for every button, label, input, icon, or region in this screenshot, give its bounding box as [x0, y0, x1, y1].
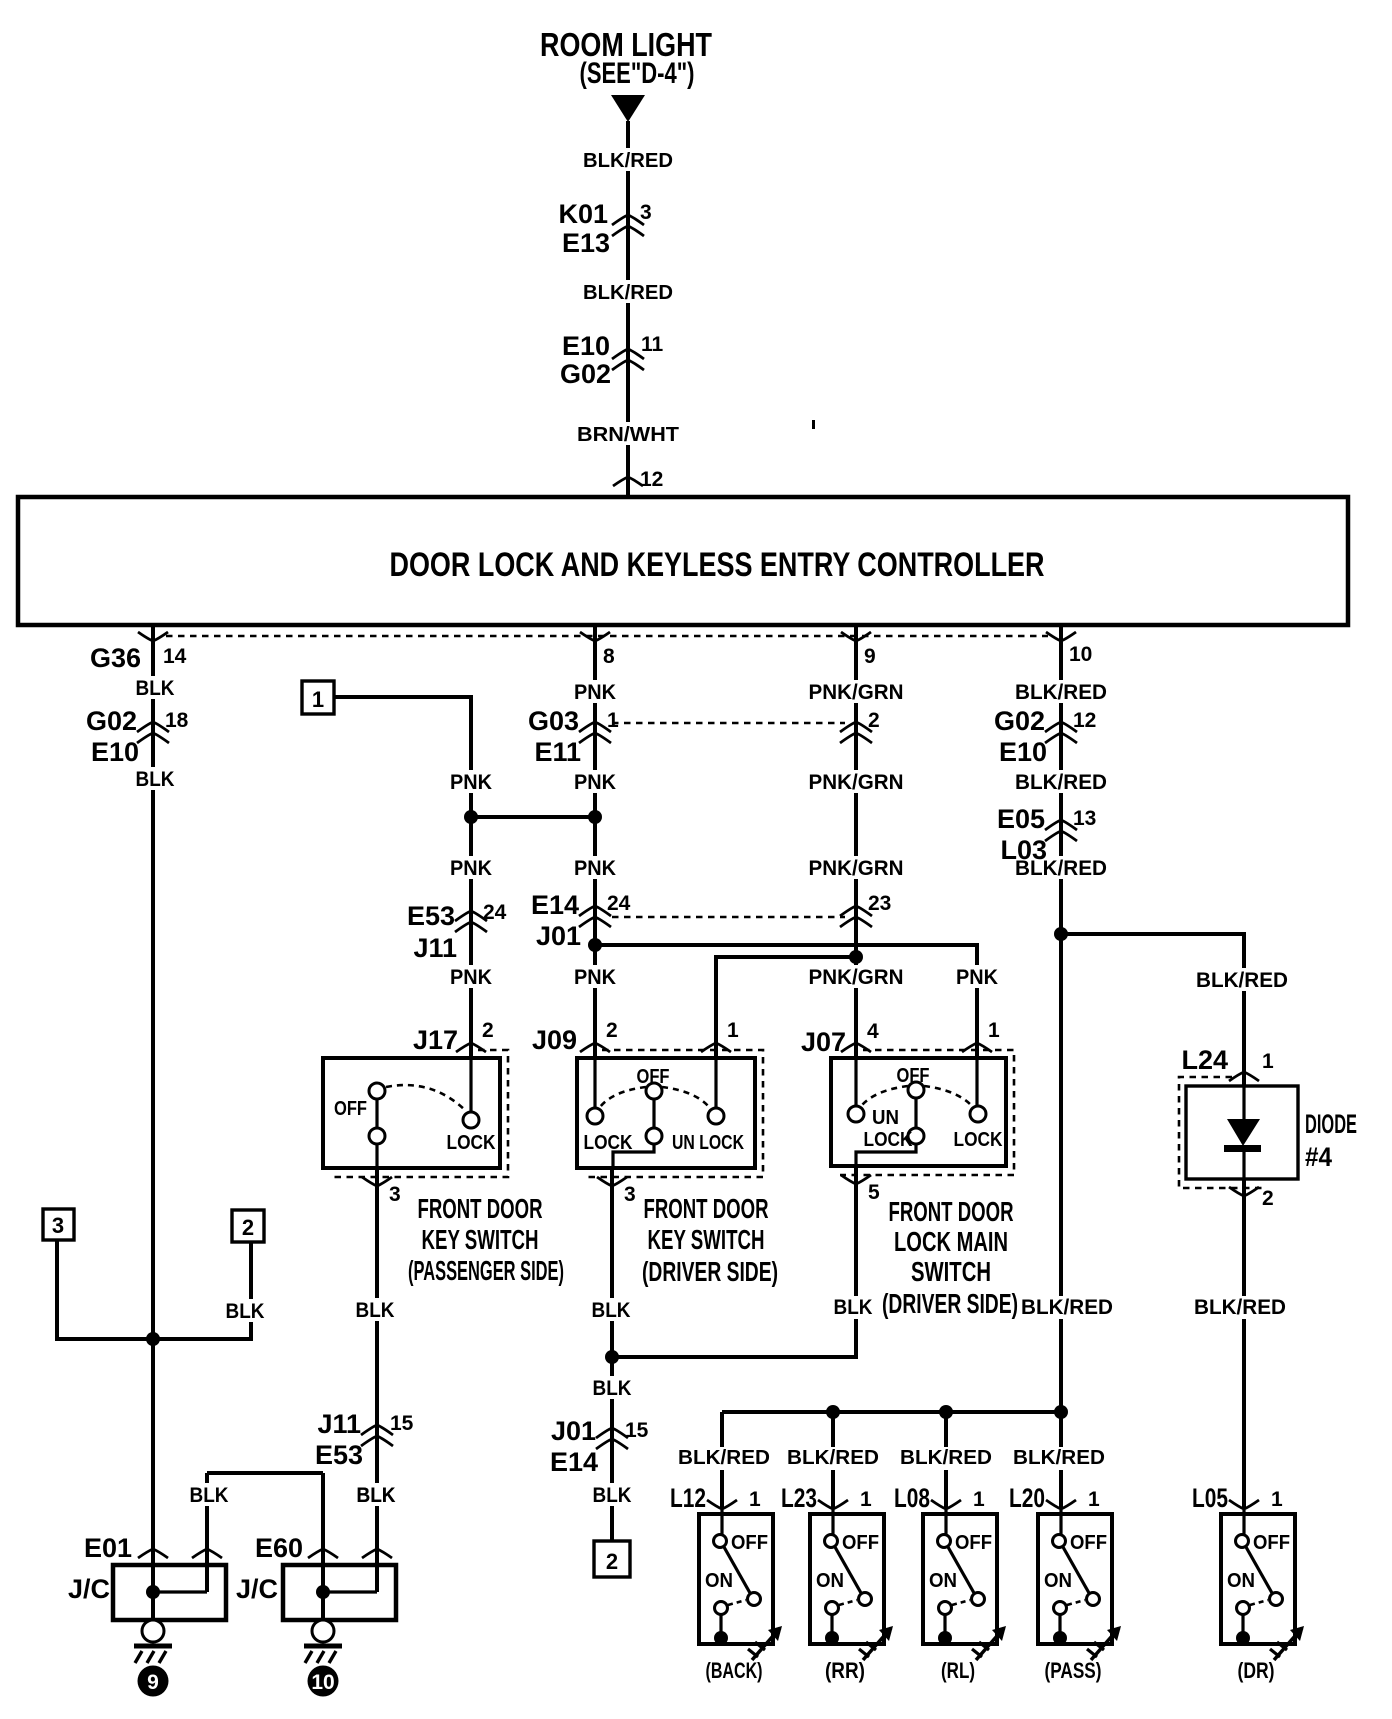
- svg-text:(DRIVER SIDE): (DRIVER SIDE): [642, 1256, 778, 1287]
- svg-text:BLK/RED: BLK/RED: [1015, 771, 1107, 794]
- svg-text:PNK/GRN: PNK/GRN: [809, 681, 904, 704]
- svg-text:L08: L08: [894, 1483, 930, 1513]
- svg-text:PNK: PNK: [956, 966, 998, 989]
- door switch feed bus (BLK/RED): [722, 1405, 1068, 1509]
- svg-text:(DRIVER SIDE): (DRIVER SIDE): [882, 1288, 1018, 1319]
- connector K01/E13 pin 3: [558, 199, 651, 258]
- controller pin 8: [580, 632, 615, 668]
- svg-text:12: 12: [1073, 709, 1096, 732]
- svg-text:E10: E10: [91, 737, 139, 767]
- controller bottom connector dashed line: [166, 635, 1048, 638]
- svg-text:BLK: BLK: [136, 768, 175, 791]
- J09 wiper exit wire: [613, 1144, 654, 1168]
- door switch L23 (RR) pin 1: [781, 1483, 893, 1683]
- svg-text:BLK: BLK: [190, 1484, 229, 1507]
- svg-text:BLK/RED: BLK/RED: [583, 150, 673, 172]
- DOOR LOCK AND KEYLESS ENTRY CONTROLLER box U1: [18, 497, 1348, 625]
- junction link PNK columns: [464, 810, 602, 824]
- junction J09/J07 BLK: [605, 1350, 619, 1364]
- svg-text:PNK: PNK: [450, 857, 492, 880]
- J07 pin wires inner: [856, 1058, 977, 1106]
- svg-text:BLK: BLK: [357, 1484, 396, 1507]
- J17 caption: [408, 1193, 564, 1286]
- J17 pin 2: [413, 1019, 494, 1055]
- svg-text:E05: E05: [997, 804, 1045, 834]
- svg-text:OFF: OFF: [334, 1098, 367, 1120]
- dashed link E14/J01 to pin23 connector: [612, 916, 845, 919]
- svg-text:10: 10: [1069, 643, 1092, 666]
- svg-text:15: 15: [625, 1419, 649, 1442]
- svg-text:BLK: BLK: [592, 1299, 631, 1322]
- junction wire to J09 pin1: [716, 950, 863, 1058]
- svg-text:1: 1: [312, 687, 324, 712]
- J17 pin 3 exit: [362, 1144, 401, 1206]
- svg-text:BLK: BLK: [226, 1300, 265, 1323]
- svg-text:FRONT DOOR: FRONT DOOR: [644, 1193, 769, 1224]
- L24 pin 1: [1181, 1045, 1274, 1081]
- J09 contacts: [587, 1083, 724, 1144]
- svg-text:1: 1: [1262, 1050, 1274, 1073]
- svg-text:24: 24: [607, 892, 631, 915]
- svg-text:BLK: BLK: [593, 1377, 632, 1400]
- svg-text:BLK/RED: BLK/RED: [1015, 857, 1107, 880]
- svg-text:E53: E53: [315, 1440, 363, 1470]
- svg-text:(BACK): (BACK): [706, 1658, 763, 1683]
- door switch L12 (BACK) pin 1: [670, 1483, 782, 1683]
- svg-text:PNK: PNK: [450, 771, 492, 794]
- svg-text:FRONT DOOR: FRONT DOOR: [418, 1193, 543, 1224]
- svg-text:G02: G02: [560, 359, 611, 389]
- svg-text:14: 14: [163, 645, 187, 668]
- svg-text:(PASS): (PASS): [1045, 1658, 1102, 1683]
- svg-text:E01: E01: [84, 1533, 132, 1563]
- svg-text:KEY SWITCH: KEY SWITCH: [422, 1224, 539, 1255]
- junction connector E01 J/C with ground 9: [68, 1533, 226, 1697]
- terminal box 2: [232, 1210, 264, 1242]
- svg-text:(PASSENGER SIDE): (PASSENGER SIDE): [408, 1255, 564, 1286]
- svg-text:BLK/RED: BLK/RED: [1013, 1447, 1105, 1469]
- svg-text:BLK: BLK: [834, 1296, 873, 1319]
- svg-text:4: 4: [867, 1020, 879, 1043]
- DIODE #4 label: [1305, 1109, 1357, 1172]
- J17 pin2 inner wire: [469, 1058, 472, 1112]
- svg-text:PNK: PNK: [450, 966, 492, 989]
- connector G02/E10 pin 18: [86, 706, 189, 767]
- svg-text:J07: J07: [801, 1027, 846, 1057]
- svg-text:2: 2: [1262, 1187, 1274, 1210]
- J07 caption: [882, 1196, 1018, 1319]
- svg-text:PNK: PNK: [574, 857, 616, 880]
- J07 dashed shadow: [840, 1050, 1014, 1175]
- svg-text:PNK: PNK: [574, 681, 616, 704]
- svg-text:J01: J01: [551, 1416, 596, 1446]
- svg-text:L20: L20: [1009, 1483, 1045, 1513]
- svg-text:(DR): (DR): [1238, 1658, 1275, 1683]
- junction + wire to diode L24: [1054, 927, 1244, 1086]
- svg-text:13: 13: [1073, 807, 1096, 830]
- J07 pin 1: [962, 1019, 1000, 1052]
- svg-text:BLK/RED: BLK/RED: [787, 1447, 879, 1469]
- svg-text:J11: J11: [317, 1409, 361, 1439]
- svg-text:1: 1: [1271, 1488, 1283, 1511]
- svg-text:(RR): (RR): [825, 1658, 865, 1683]
- J09 dashed shadow: [586, 1050, 763, 1177]
- svg-text:E53: E53: [407, 901, 455, 931]
- svg-text:2: 2: [242, 1215, 254, 1240]
- terminal box 3: [43, 1209, 74, 1240]
- connector pin 23: [840, 892, 891, 927]
- svg-text:3: 3: [52, 1213, 64, 1238]
- svg-text:BLK: BLK: [593, 1484, 632, 1507]
- svg-text:L05: L05: [1192, 1483, 1228, 1513]
- svg-text:12: 12: [640, 468, 663, 491]
- svg-text:10: 10: [311, 1671, 334, 1694]
- connector E14/J01 pin 24: [531, 890, 631, 951]
- svg-text:1: 1: [727, 1019, 739, 1042]
- svg-text:#4: #4: [1305, 1142, 1332, 1172]
- J17 dashed shadow: [331, 1050, 508, 1177]
- svg-text:(SEE"D-4"): (SEE"D-4"): [580, 57, 695, 90]
- controller pin 10: [1046, 632, 1092, 666]
- svg-text:2: 2: [606, 1019, 618, 1042]
- front door key switch J09 box: [577, 1058, 755, 1168]
- svg-text:E14: E14: [550, 1447, 598, 1477]
- connector E10/G02 pin 11: [560, 331, 664, 389]
- J17 contacts: [369, 1083, 479, 1144]
- diode L24 box: [1186, 1086, 1298, 1179]
- wire pin9 to J07 pin4 (PNK/GRN): [854, 625, 858, 1058]
- svg-text:LOCK: LOCK: [954, 1129, 1003, 1151]
- svg-text:E11: E11: [534, 737, 581, 767]
- svg-text:J/C: J/C: [68, 1574, 110, 1604]
- stray scan mark: [812, 420, 815, 429]
- svg-text:BLK/RED: BLK/RED: [900, 1447, 992, 1469]
- svg-text:11: 11: [641, 333, 664, 356]
- svg-text:23: 23: [868, 892, 891, 915]
- dashed link G03/E11 to pin2 connector: [612, 722, 845, 725]
- wire terminals 3/2 to ground wire: [57, 1240, 251, 1346]
- svg-text:KEY SWITCH: KEY SWITCH: [648, 1224, 765, 1255]
- svg-text:18: 18: [165, 709, 189, 732]
- wire pin8 to J09 pin2 (PNK): [593, 625, 597, 1058]
- wire E01 pin2 link (BLK): [207, 1473, 323, 1620]
- svg-text:J17: J17: [413, 1025, 458, 1055]
- svg-text:1: 1: [607, 709, 619, 732]
- svg-text:BLK/RED: BLK/RED: [583, 282, 673, 304]
- J07 pin 5 exit: [841, 1175, 880, 1204]
- svg-text:BLK/RED: BLK/RED: [1015, 681, 1107, 704]
- connector G03/E11 pin 1: [528, 706, 619, 767]
- svg-text:BLK: BLK: [356, 1299, 395, 1322]
- svg-text:UN: UN: [872, 1107, 899, 1129]
- svg-text:3: 3: [640, 201, 652, 224]
- svg-text:J/C: J/C: [236, 1574, 278, 1604]
- svg-text:E60: E60: [255, 1533, 303, 1563]
- svg-text:PNK: PNK: [574, 771, 616, 794]
- svg-text:1: 1: [860, 1488, 872, 1511]
- J07 pin 4: [801, 1020, 879, 1057]
- svg-text:BRN/WHT: BRN/WHT: [577, 424, 679, 446]
- svg-text:FRONT DOOR: FRONT DOOR: [889, 1196, 1014, 1227]
- svg-text:2: 2: [868, 709, 880, 732]
- connector E05/L03 pin 13: [997, 804, 1096, 865]
- svg-text:9: 9: [864, 645, 876, 668]
- J09 caption: [642, 1193, 778, 1287]
- front door lock main switch J07 box: [831, 1058, 1006, 1166]
- terminal box 1: [302, 681, 334, 714]
- junction wire J01 to J07 pin1: [588, 938, 977, 1058]
- svg-text:J01: J01: [536, 921, 581, 951]
- L24 dashed shadow: [1179, 1077, 1262, 1188]
- connector G02/E10 pin 12: [994, 706, 1096, 767]
- controller pin 12: [613, 468, 663, 491]
- svg-text:(RL): (RL): [941, 1658, 975, 1683]
- controller pin 14 (G36): [90, 632, 187, 673]
- svg-text:E10: E10: [999, 737, 1047, 767]
- svg-text:24: 24: [483, 901, 507, 924]
- wire pin14 to E01 J/C (BLK): [151, 625, 155, 1620]
- svg-text:UN LOCK: UN LOCK: [672, 1132, 744, 1154]
- svg-text:BLK/RED: BLK/RED: [1196, 969, 1288, 992]
- J09 pin 1: [701, 1019, 739, 1052]
- connector J01/E14 pin 15: [550, 1416, 649, 1477]
- front door key switch J17 box: [323, 1058, 500, 1168]
- wire J17 pin3 to E60 (BLK): [375, 1168, 379, 1592]
- svg-text:1: 1: [1088, 1488, 1100, 1511]
- wire J07 pin5 to junction (BLK): [612, 1166, 856, 1357]
- connector pin 2: [840, 709, 880, 743]
- wire J09 pin3 to terminal 2 (BLK): [610, 1168, 614, 1541]
- svg-text:J11: J11: [413, 933, 457, 963]
- svg-text:5: 5: [868, 1181, 880, 1204]
- svg-text:3: 3: [624, 1183, 636, 1206]
- svg-text:LOCK: LOCK: [447, 1132, 496, 1154]
- door switch L20 (PASS) pin 1: [1009, 1483, 1121, 1683]
- svg-text:L23: L23: [781, 1483, 817, 1513]
- svg-text:SWITCH: SWITCH: [911, 1256, 991, 1287]
- svg-text:E13: E13: [562, 228, 610, 258]
- door switch L08 (RL) pin 1: [894, 1483, 1006, 1683]
- svg-text:1: 1: [988, 1019, 1000, 1042]
- J09 pin 3 exit: [597, 1177, 636, 1206]
- svg-text:PNK/GRN: PNK/GRN: [809, 771, 904, 794]
- L24 pin 2: [1229, 1187, 1274, 1210]
- svg-text:L24: L24: [1181, 1045, 1228, 1075]
- svg-text:BLK/RED: BLK/RED: [1021, 1296, 1113, 1319]
- svg-text:BLK/RED: BLK/RED: [1194, 1296, 1286, 1319]
- svg-text:9: 9: [147, 1671, 159, 1694]
- J09 pin wires inner: [595, 1058, 716, 1108]
- connector E53/J11 pin 24: [407, 901, 507, 963]
- svg-text:8: 8: [603, 645, 615, 668]
- svg-text:G02: G02: [86, 706, 137, 736]
- svg-text:K01: K01: [558, 199, 608, 229]
- svg-text:15: 15: [390, 1412, 414, 1435]
- J07 contacts: [848, 1082, 986, 1144]
- J07 wiper exit wire: [856, 1144, 916, 1166]
- svg-text:DIODE: DIODE: [1305, 1109, 1357, 1139]
- svg-text:PNK: PNK: [574, 966, 616, 989]
- svg-text:L12: L12: [670, 1483, 706, 1513]
- controller pin 9: [841, 632, 876, 668]
- wire room light to controller pin 12: [626, 121, 630, 497]
- svg-text:PNK/GRN: PNK/GRN: [809, 966, 904, 989]
- connector J11/E53 pin 15: [315, 1409, 414, 1470]
- svg-text:PNK/GRN: PNK/GRN: [809, 857, 904, 880]
- J09 pin 2: [532, 1019, 618, 1055]
- wire L24 to L05 (BLK/RED): [1242, 1179, 1246, 1509]
- junction connector E60 J/C with ground 10: [236, 1533, 396, 1697]
- svg-text:J09: J09: [532, 1025, 577, 1055]
- wire terminal1 to J17 pin2 (PNK): [334, 697, 471, 1058]
- room light feed arrowhead: [611, 95, 645, 122]
- svg-text:LOCK: LOCK: [864, 1129, 913, 1151]
- diode #4 symbol: [1224, 1086, 1261, 1179]
- svg-text:1: 1: [749, 1488, 761, 1511]
- door switch L05 (DR) pin 1: [1192, 1483, 1304, 1683]
- svg-text:E14: E14: [531, 890, 579, 920]
- svg-text:1: 1: [973, 1488, 985, 1511]
- svg-text:BLK: BLK: [136, 677, 175, 700]
- wire pin10 to door switch bus (BLK/RED): [1059, 625, 1063, 1509]
- svg-text:2: 2: [606, 1549, 618, 1574]
- svg-text:2: 2: [482, 1019, 494, 1042]
- svg-text:G03: G03: [528, 706, 579, 736]
- svg-text:G02: G02: [994, 706, 1045, 736]
- svg-text:BLK/RED: BLK/RED: [678, 1447, 770, 1469]
- svg-text:DOOR LOCK AND KEYLESS ENTRY CO: DOOR LOCK AND KEYLESS ENTRY CONTROLLER: [390, 546, 1045, 584]
- node ROOM LIGHT (SEE D-4): [540, 26, 712, 90]
- svg-text:E10: E10: [562, 331, 610, 361]
- svg-text:G36: G36: [90, 643, 141, 673]
- svg-text:LOCK MAIN: LOCK MAIN: [894, 1226, 1008, 1257]
- svg-text:3: 3: [389, 1183, 401, 1206]
- terminal box 2 (bottom): [594, 1541, 630, 1577]
